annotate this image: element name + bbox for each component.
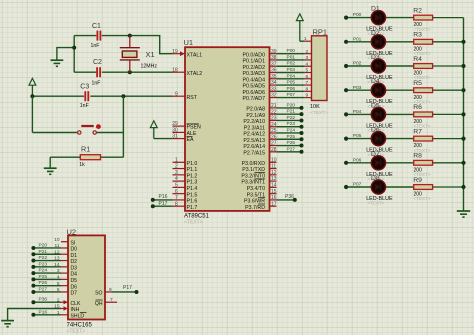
svg-text:15: 15 xyxy=(271,189,277,195)
svg-text:28: 28 xyxy=(271,147,277,153)
node crystal top junction xyxy=(128,34,132,38)
svg-text:D6: D6 xyxy=(71,284,78,290)
svg-text:P2.4/A12: P2.4/A12 xyxy=(243,132,265,138)
svg-text:P22: P22 xyxy=(39,255,48,261)
svg-text:36: 36 xyxy=(271,68,277,74)
svg-text:P06: P06 xyxy=(353,157,362,163)
svg-text:26: 26 xyxy=(271,134,277,140)
svg-text:R2: R2 xyxy=(413,7,422,14)
svg-text:4: 4 xyxy=(175,176,178,182)
node P25 xyxy=(300,137,304,141)
svg-text:D3: D3 xyxy=(371,54,380,61)
ground R1 xyxy=(44,168,57,174)
node P22 xyxy=(300,118,304,122)
svg-text:P17: P17 xyxy=(159,201,168,207)
svg-text:D8: D8 xyxy=(371,175,380,182)
svg-text:P1.7: P1.7 xyxy=(187,205,198,211)
svg-text:SO: SO xyxy=(95,291,102,297)
pin 15 P3.5/T1 xyxy=(247,189,277,199)
svg-text:35: 35 xyxy=(271,74,277,80)
svg-text:D0: D0 xyxy=(71,247,78,253)
wire LED ground rail xyxy=(463,18,465,211)
pushbutton reset xyxy=(78,124,101,134)
pin 23 P2.2/A10 xyxy=(243,116,276,126)
wire P20 net xyxy=(277,107,302,109)
svg-text:QH: QH xyxy=(95,301,103,307)
svg-text:P00: P00 xyxy=(353,12,362,18)
svg-text:3: 3 xyxy=(306,55,309,61)
svg-text:D7: D7 xyxy=(71,291,78,297)
resistor R7 xyxy=(414,136,464,141)
wire P05 to RP1 pin 7 xyxy=(277,84,305,86)
svg-text:23: 23 xyxy=(271,116,277,122)
pin 1 RP1 xyxy=(305,40,312,42)
svg-text:16: 16 xyxy=(271,195,277,201)
pin 32 P0.7/AD7 xyxy=(243,93,277,103)
svg-text:32: 32 xyxy=(271,93,277,99)
wire P07 LED row xyxy=(346,186,414,188)
svg-text:P04: P04 xyxy=(287,73,296,79)
svg-text:D6: D6 xyxy=(371,127,380,134)
svg-text:R9: R9 xyxy=(413,177,422,184)
svg-text:P05: P05 xyxy=(287,80,296,86)
svg-text:4: 4 xyxy=(306,61,309,67)
pin 17 P3.7/RD xyxy=(245,201,277,211)
svg-text:<TEXT>: <TEXT> xyxy=(310,110,328,116)
svg-text:P1.0: P1.0 xyxy=(187,161,198,167)
svg-text:P2.5/A13: P2.5/A13 xyxy=(243,138,265,144)
pin 3 RP1 xyxy=(305,59,312,61)
svg-text:P3.7/RD: P3.7/RD xyxy=(245,205,265,211)
svg-text:P0.3/AD3: P0.3/AD3 xyxy=(243,71,266,77)
node rail junction xyxy=(461,64,465,68)
wire P22 net xyxy=(277,119,302,121)
pin 33 P0.6/AD6 xyxy=(243,86,277,96)
pin 8 RP1 xyxy=(305,90,312,92)
wire RST row xyxy=(32,95,84,97)
svg-text:P03: P03 xyxy=(353,85,362,91)
svg-text:P1.5: P1.5 xyxy=(187,192,198,198)
svg-text:P01: P01 xyxy=(353,36,362,42)
svg-text:P27: P27 xyxy=(39,286,48,292)
node rail junction xyxy=(461,40,465,44)
pin 9 RST xyxy=(173,91,198,101)
node P21 U2 xyxy=(31,252,35,256)
resistor pack RP1 body xyxy=(312,36,328,101)
svg-text:R6: R6 xyxy=(413,104,422,111)
LED D4 xyxy=(371,83,385,97)
wire P27 to D7 xyxy=(33,291,61,293)
wire C2 net to XTAL2 xyxy=(102,71,173,73)
capacitor C2 xyxy=(97,67,100,77)
svg-text:P1.1: P1.1 xyxy=(187,167,198,173)
svg-text:14: 14 xyxy=(271,182,277,188)
wire INH to ground xyxy=(8,309,61,321)
wire P24 net xyxy=(277,132,302,134)
svg-text:P3.0/RXD: P3.0/RXD xyxy=(242,161,266,167)
pin 13 D2 U2 xyxy=(54,256,77,266)
wire P01 LED row xyxy=(346,41,414,43)
node P24 xyxy=(300,131,304,135)
svg-text:P03: P03 xyxy=(287,67,296,73)
pin 10 SI U2 xyxy=(54,237,75,247)
pin 36 P0.3/AD3 xyxy=(243,68,277,78)
node rail junction xyxy=(461,161,465,165)
resistor R5 xyxy=(414,88,464,93)
resistor R6 xyxy=(414,112,464,117)
svg-text:P2.6/A14: P2.6/A14 xyxy=(243,144,265,150)
wire right vertical button to R1 xyxy=(122,96,124,157)
svg-text:27: 27 xyxy=(271,141,277,147)
svg-text:P07: P07 xyxy=(287,92,296,98)
svg-text:P23: P23 xyxy=(39,261,48,267)
svg-text:P00: P00 xyxy=(287,48,296,54)
node P16 U2 xyxy=(31,313,35,317)
power symbol VCC EA xyxy=(150,121,157,139)
svg-text:8: 8 xyxy=(175,201,178,207)
LED D2 xyxy=(371,35,385,49)
node P17 xyxy=(151,204,155,208)
svg-text:25: 25 xyxy=(271,128,277,134)
pin 19 XTAL1 xyxy=(172,49,202,59)
node P20 xyxy=(300,106,304,110)
wire P16 net xyxy=(153,199,173,201)
pin 13 P3.3/INT1 xyxy=(241,176,276,186)
pin 21 P2.0/A8 xyxy=(246,103,276,113)
svg-text:R7: R7 xyxy=(413,128,422,135)
svg-text:7: 7 xyxy=(175,195,178,201)
node P02 LED xyxy=(344,64,348,68)
svg-text:P21: P21 xyxy=(287,109,296,115)
svg-text:U1: U1 xyxy=(184,38,194,47)
svg-text:P26: P26 xyxy=(287,140,296,146)
svg-text:P0.5/AD5: P0.5/AD5 xyxy=(243,84,266,90)
pin 3 D4 U2 xyxy=(57,268,77,278)
pin 10 P3.0/RXD xyxy=(242,157,277,167)
svg-text:7: 7 xyxy=(110,297,113,303)
wire P27 net xyxy=(277,151,302,153)
wire P25 to D5 xyxy=(33,278,61,280)
pin 35 P0.4/AD4 xyxy=(243,74,277,84)
svg-text:SI: SI xyxy=(71,240,76,246)
svg-text:R5: R5 xyxy=(413,80,422,87)
node P16 xyxy=(151,198,155,202)
wire left vertical to button xyxy=(31,96,33,132)
pin 8 P1.7 xyxy=(173,201,198,211)
wire P06 to RP1 pin 8 xyxy=(277,90,305,92)
svg-text:P1.3: P1.3 xyxy=(187,180,198,186)
resistor R2 xyxy=(414,15,464,20)
svg-text:24: 24 xyxy=(271,122,277,128)
svg-text:D1: D1 xyxy=(71,253,78,259)
ground U2 xyxy=(1,321,14,327)
svg-text:10: 10 xyxy=(271,157,277,163)
svg-text:1nF: 1nF xyxy=(92,80,101,86)
wire R1 to ground xyxy=(49,157,51,168)
svg-text:2: 2 xyxy=(175,164,178,170)
svg-text:P17: P17 xyxy=(123,285,132,291)
svg-text:1: 1 xyxy=(175,157,178,163)
svg-text:RST: RST xyxy=(187,95,198,101)
pin 5 RP1 xyxy=(305,72,312,74)
wire P20 to D0 xyxy=(33,247,61,249)
node RST junction xyxy=(121,94,125,98)
svg-text:9: 9 xyxy=(175,91,178,97)
svg-text:9: 9 xyxy=(306,93,309,99)
svg-text:P23: P23 xyxy=(287,121,296,127)
node P21 xyxy=(300,112,304,116)
svg-text:XTAL2: XTAL2 xyxy=(187,71,203,77)
svg-text:P1.2: P1.2 xyxy=(187,173,198,179)
pin 27 P2.6/A14 xyxy=(243,141,276,151)
pin 28 P2.7/A15 xyxy=(243,147,276,157)
pin 15 INH U2 xyxy=(54,304,79,314)
svg-text:D5: D5 xyxy=(371,102,380,109)
svg-text:2: 2 xyxy=(306,49,309,55)
pin 14 D3 U2 xyxy=(54,262,77,272)
wire P26 net xyxy=(277,145,302,147)
pin 6 D7 U2 xyxy=(57,287,77,297)
svg-text:29: 29 xyxy=(172,121,178,127)
pin 3 P1.2 xyxy=(173,170,198,180)
wire to EA pin xyxy=(154,138,173,140)
svg-text:P2.1/A9: P2.1/A9 xyxy=(246,113,265,119)
node P26 xyxy=(300,144,304,148)
resistor R3 xyxy=(414,39,464,44)
svg-text:38: 38 xyxy=(271,55,277,61)
svg-text:D2: D2 xyxy=(71,259,78,265)
svg-text:P24: P24 xyxy=(39,268,48,274)
pin 30 ALE xyxy=(172,128,197,138)
pin 12 D1 U2 xyxy=(54,249,77,258)
svg-text:1k: 1k xyxy=(79,162,85,168)
svg-text:D5: D5 xyxy=(71,278,78,284)
svg-text:D4: D4 xyxy=(371,78,380,85)
pin 14 P3.4/T0 xyxy=(247,182,277,192)
IC U2 74HC165 body xyxy=(68,235,105,319)
pin 31 EA xyxy=(172,134,194,144)
svg-text:37: 37 xyxy=(271,61,277,67)
wire P24 to D4 xyxy=(33,272,61,274)
svg-text:P27: P27 xyxy=(287,146,296,152)
svg-text:EA: EA xyxy=(187,137,195,143)
ground crystal section xyxy=(51,60,64,66)
pin 9 SO U2 xyxy=(95,287,112,297)
pin 4 P1.3 xyxy=(173,176,198,186)
svg-text:1: 1 xyxy=(304,36,307,42)
svg-text:X1: X1 xyxy=(146,50,155,59)
LED D7 xyxy=(371,156,385,170)
wire P36 net xyxy=(277,199,295,201)
node rail junction xyxy=(461,137,465,141)
wire P03 LED row xyxy=(346,89,414,91)
node rail junction xyxy=(461,112,465,116)
power symbol VCC reset xyxy=(29,78,36,96)
svg-text:C1: C1 xyxy=(92,23,101,30)
wire P01 to RP1 pin 3 xyxy=(277,59,305,61)
node rail junction xyxy=(461,88,465,92)
svg-text:19: 19 xyxy=(172,49,178,55)
wire P06 LED row xyxy=(346,162,414,164)
svg-text:D2: D2 xyxy=(371,30,380,37)
svg-text:P3.4/T0: P3.4/T0 xyxy=(247,186,265,192)
pin 2 RP1 xyxy=(305,53,312,55)
svg-text:PSEN: PSEN xyxy=(187,125,202,131)
LED D6 xyxy=(371,132,385,146)
node P23 U2 xyxy=(31,265,35,269)
pin 12 P3.2/INT0 xyxy=(241,170,276,180)
svg-text:R8: R8 xyxy=(413,153,422,160)
pin 22 P2.1/A9 xyxy=(246,109,276,119)
svg-text:10: 10 xyxy=(54,237,60,243)
svg-text:33: 33 xyxy=(271,86,277,92)
node P05 LED xyxy=(344,137,348,141)
LED D3 xyxy=(371,59,385,73)
svg-text:1nF: 1nF xyxy=(91,43,100,49)
svg-text:P0.2/AD2: P0.2/AD2 xyxy=(243,65,266,71)
svg-text:P1.6: P1.6 xyxy=(187,199,198,205)
svg-text:P0.6/AD6: P0.6/AD6 xyxy=(243,90,266,96)
svg-text:12MHz: 12MHz xyxy=(141,64,158,70)
node P27 xyxy=(300,150,304,154)
wire P00 LED row xyxy=(346,17,414,19)
wire P36 to CLK xyxy=(33,301,61,303)
svg-text:D3: D3 xyxy=(71,265,78,271)
pin 5 P1.4 xyxy=(173,182,198,192)
pin 34 P0.5/AD5 xyxy=(243,80,277,90)
pin 38 P0.1/AD1 xyxy=(243,55,277,65)
svg-text:31: 31 xyxy=(172,134,178,140)
svg-text:P26: P26 xyxy=(39,280,48,286)
wire P26 to D6 xyxy=(33,285,61,287)
pin 2 CLK U2 xyxy=(57,297,81,307)
resistor R1 xyxy=(50,156,80,158)
svg-text:39: 39 xyxy=(271,49,277,55)
wire P07 to RP1 pin 9 xyxy=(277,97,305,99)
wire P02 LED row xyxy=(346,65,414,67)
svg-text:P2.7/A15: P2.7/A15 xyxy=(243,150,265,156)
svg-text:17: 17 xyxy=(271,201,277,207)
svg-text:18: 18 xyxy=(172,67,178,73)
svg-text:22: 22 xyxy=(271,109,277,115)
resistor R4 xyxy=(414,64,464,69)
svg-text:P02: P02 xyxy=(287,61,296,67)
svg-text:5: 5 xyxy=(175,182,178,188)
capacitor C3 xyxy=(85,91,88,101)
wire P23 net xyxy=(277,126,302,128)
svg-text:P3.1/TXD: P3.1/TXD xyxy=(242,167,265,173)
svg-text:D4: D4 xyxy=(71,272,78,278)
svg-text:P25: P25 xyxy=(39,274,48,280)
node P27 U2 xyxy=(31,290,35,294)
svg-text:P06: P06 xyxy=(287,86,296,92)
svg-text:P3.6/WR: P3.6/WR xyxy=(244,199,265,205)
svg-text:P3.2/INT0: P3.2/INT0 xyxy=(241,173,265,179)
svg-text:XTAL1: XTAL1 xyxy=(187,52,203,58)
pin 24 P2.3/A11 xyxy=(244,122,277,132)
svg-text:6: 6 xyxy=(306,74,309,80)
svg-text:P01: P01 xyxy=(287,54,296,60)
svg-text:P36: P36 xyxy=(39,297,48,303)
svg-text:P0.0/AD0: P0.0/AD0 xyxy=(243,52,266,58)
svg-text:D1: D1 xyxy=(371,6,380,13)
svg-text:8: 8 xyxy=(306,86,309,92)
wire P21 net xyxy=(277,113,302,115)
pin 11 D0 U2 xyxy=(55,243,78,253)
wire ground branch xyxy=(57,48,74,61)
svg-text:10K: 10K xyxy=(310,104,320,110)
pin 5 D6 U2 xyxy=(57,281,77,291)
node P03 LED xyxy=(344,88,348,92)
pin 1 P1.0 xyxy=(173,157,198,167)
svg-text:P3.5/T1: P3.5/T1 xyxy=(247,192,265,198)
pin 7 RP1 xyxy=(305,84,312,86)
svg-text:INH: INH xyxy=(71,307,80,313)
pin 25 P2.4/A12 xyxy=(243,128,276,138)
node RST left xyxy=(30,94,34,98)
svg-text:P1.4: P1.4 xyxy=(187,186,198,192)
wire RP1 pin 1 xyxy=(300,40,305,42)
wire P02 to RP1 pin 4 xyxy=(277,65,305,67)
node ground branch junction xyxy=(72,46,76,50)
svg-text:21: 21 xyxy=(271,103,277,109)
svg-text:RP1: RP1 xyxy=(313,27,328,36)
svg-text:3: 3 xyxy=(175,170,178,176)
svg-text:P16: P16 xyxy=(159,194,168,200)
wire P00 to RP1 pin 2 xyxy=(277,53,305,55)
svg-text:<TEXT>: <TEXT> xyxy=(67,328,86,334)
node P24 U2 xyxy=(31,271,35,275)
pin 39 P0.0/AD0 xyxy=(243,49,277,59)
svg-text:13: 13 xyxy=(271,176,277,182)
svg-text:P25: P25 xyxy=(287,134,296,140)
power symbol VCC RP1 xyxy=(296,14,303,41)
svg-text:SHLD: SHLD xyxy=(71,313,85,319)
wire P04 LED row xyxy=(346,113,414,115)
LED D1 xyxy=(371,11,385,25)
svg-text:P36: P36 xyxy=(285,194,294,200)
svg-text:1nF: 1nF xyxy=(80,103,89,109)
crystal X1 xyxy=(120,36,140,73)
svg-text:P04: P04 xyxy=(353,109,362,115)
node P07 LED xyxy=(344,185,348,189)
svg-text:R3: R3 xyxy=(413,32,422,39)
pin 6 P1.5 xyxy=(173,189,198,199)
node P20 U2 xyxy=(31,246,35,250)
svg-text:P0.4/AD4: P0.4/AD4 xyxy=(243,77,266,83)
svg-text:R4: R4 xyxy=(413,56,422,63)
LED D8 xyxy=(371,180,385,194)
svg-text:34: 34 xyxy=(271,80,277,86)
svg-text:5: 5 xyxy=(306,68,309,74)
wire P04 to RP1 pin 6 xyxy=(277,78,305,80)
svg-text:30: 30 xyxy=(172,128,178,134)
node rail junction xyxy=(461,185,465,189)
svg-text:CLK: CLK xyxy=(71,301,82,307)
pin 26 P2.5/A13 xyxy=(243,134,276,144)
IC U1 AT89C51 body xyxy=(185,47,270,211)
svg-text:P0.1/AD1: P0.1/AD1 xyxy=(243,59,266,65)
pin 18 XTAL2 xyxy=(172,67,202,77)
svg-text:P07: P07 xyxy=(353,182,362,188)
pin 6 RP1 xyxy=(305,78,312,80)
wire SO to P17 net xyxy=(112,291,137,293)
svg-text:P02: P02 xyxy=(353,61,362,67)
svg-text:P20: P20 xyxy=(287,102,296,108)
pin 37 P0.2/AD2 xyxy=(243,61,277,71)
svg-text:P0.7/AD7: P0.7/AD7 xyxy=(243,96,266,102)
pin 4 D5 U2 xyxy=(57,274,77,284)
